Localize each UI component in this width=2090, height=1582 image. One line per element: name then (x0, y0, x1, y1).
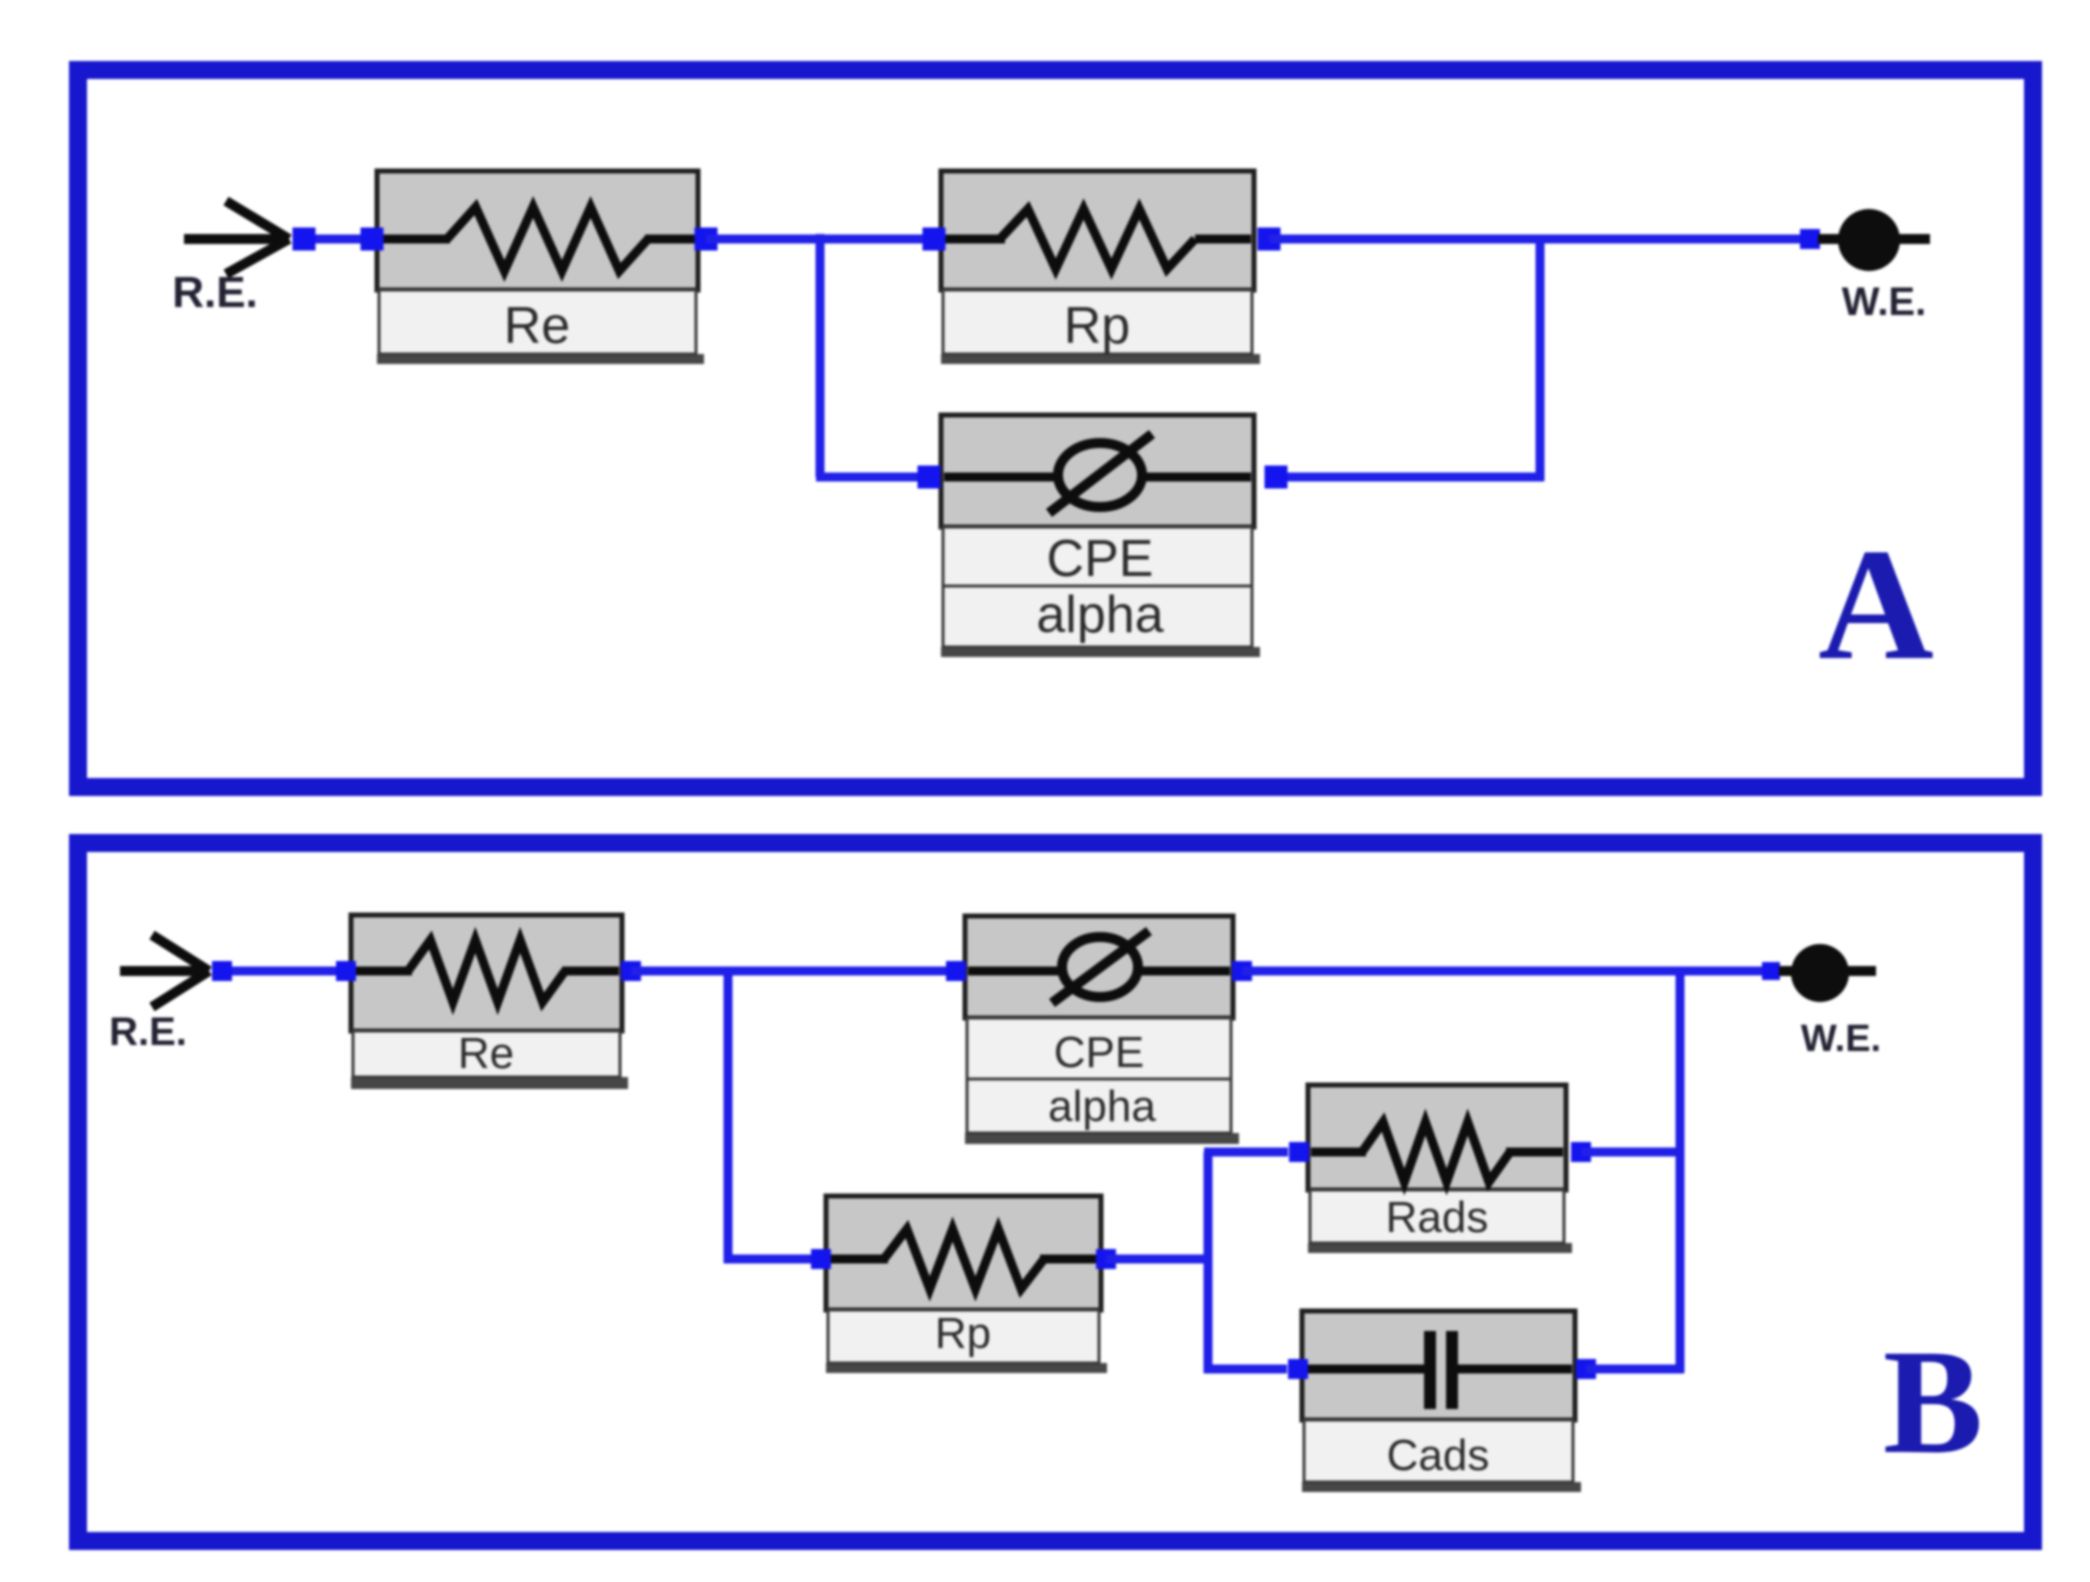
svg-text:Re: Re (458, 1029, 514, 1078)
wire: CPE output to W.E. (panel B) (1242, 967, 1762, 976)
wire: junction to Rp input (panel B) (724, 1255, 815, 1264)
node at CPE input (panel B) (946, 961, 966, 981)
svg-text:B: B (1883, 1319, 1983, 1485)
node at W.E. (panel A) (1800, 229, 1820, 249)
wire: Rp output to right junction (panel A) (1269, 235, 1545, 244)
wire: Re output to CPE input (panel B) (631, 967, 955, 976)
node at Re input (panel A) (361, 228, 384, 251)
wire: CPE output to right junction (panel A) (1277, 473, 1544, 482)
wire: right junction vertical (panel A) (1536, 235, 1545, 481)
svg-text:CPE: CPE (1054, 1028, 1144, 1077)
svg-text:Re: Re (504, 297, 570, 355)
svg-text:W.E.: W.E. (1842, 280, 1926, 324)
svg-text:Rp: Rp (1064, 297, 1130, 355)
terminal R.E. arrow (panel B) (120, 935, 209, 1007)
wire: mid junction vertical Rads-to-Cads (panel B) (1204, 1152, 1213, 1373)
resistor Rp (panel A) (941, 171, 1260, 364)
wire: left junction vertical down to Rp (panel B) (724, 967, 733, 1263)
node at Rads input (panel B) (1289, 1142, 1309, 1162)
node at R.E. terminal (panel A) (293, 228, 316, 251)
node at Re output (panel B) (621, 961, 641, 981)
node at Rp input (panel A) (923, 228, 946, 251)
resistor Rp (panel B) (826, 1196, 1107, 1373)
resistor Rads (panel B) (1308, 1085, 1572, 1253)
wire: right junction vertical (panel B) (1676, 967, 1685, 1373)
node at W.E. (panel B) (1762, 962, 1780, 980)
node at Rads output (panel B) (1571, 1142, 1591, 1162)
wire: Rp output to mid junction (panel B) (1106, 1255, 1212, 1264)
svg-text:W.E.: W.E. (1801, 1018, 1881, 1060)
terminal W.E. dot (panel B) (1779, 944, 1876, 1002)
node at CPE output (panel B) (1232, 961, 1252, 981)
node at R.E. terminal (panel B) (212, 961, 232, 981)
svg-text:R.E.: R.E. (109, 1010, 187, 1054)
CPE element (panel A) (941, 415, 1260, 657)
svg-text:CPE: CPE (1047, 530, 1154, 588)
wire: right junction to W.E. (panel A) (1540, 235, 1800, 244)
resistor Re (panel A) (377, 171, 704, 364)
node at Rp output (panel B) (1096, 1249, 1116, 1269)
terminal W.E. dot (panel A) (1818, 209, 1930, 271)
node at Re output (panel A) (695, 228, 718, 251)
svg-text:alpha: alpha (1048, 1082, 1156, 1131)
svg-text:Rp: Rp (935, 1309, 991, 1358)
panel A frame (78, 70, 2033, 787)
CPE element (panel B) (965, 916, 1239, 1144)
wire: mid junction to Rads input (panel B) (1204, 1148, 1288, 1157)
node at CPE output (panel A) (1265, 466, 1288, 489)
wire: Rads output to right junction (panel B) (1581, 1148, 1680, 1157)
node at Re input (panel B) (336, 961, 356, 981)
terminal R.E. arrow (panel A) (184, 201, 289, 274)
svg-text:alpha: alpha (1036, 586, 1163, 644)
wire: R.E. node to Re input (panel A) (304, 235, 370, 244)
node at Rp input (panel B) (811, 1249, 831, 1269)
wire: branch to CPE input (panel A) (816, 473, 929, 482)
node at Cads input (panel B) (1288, 1359, 1308, 1379)
svg-text:A: A (1818, 515, 1934, 693)
panel B frame (78, 843, 2033, 1541)
svg-text:Cads: Cads (1387, 1431, 1490, 1480)
svg-text:R.E.: R.E. (172, 268, 258, 317)
svg-text:Rads: Rads (1386, 1193, 1489, 1242)
resistor Re (panel B) (351, 915, 628, 1089)
wire: Cads output to right junction (panel B) (1586, 1365, 1684, 1374)
node at Cads output (panel B) (1576, 1359, 1596, 1379)
node at CPE input (panel A) (918, 466, 941, 489)
wire: vertical branch down to CPE (panel A) (816, 234, 825, 477)
wire: Re output to parallel split junction (panel A) (706, 235, 940, 244)
capacitor Cads (panel B) (1302, 1311, 1581, 1492)
node at Rp output (panel A) (1258, 228, 1281, 251)
wire: R.E. node to Re input (panel B) (222, 967, 346, 976)
wire: mid junction to Cads input (panel B) (1204, 1365, 1287, 1374)
